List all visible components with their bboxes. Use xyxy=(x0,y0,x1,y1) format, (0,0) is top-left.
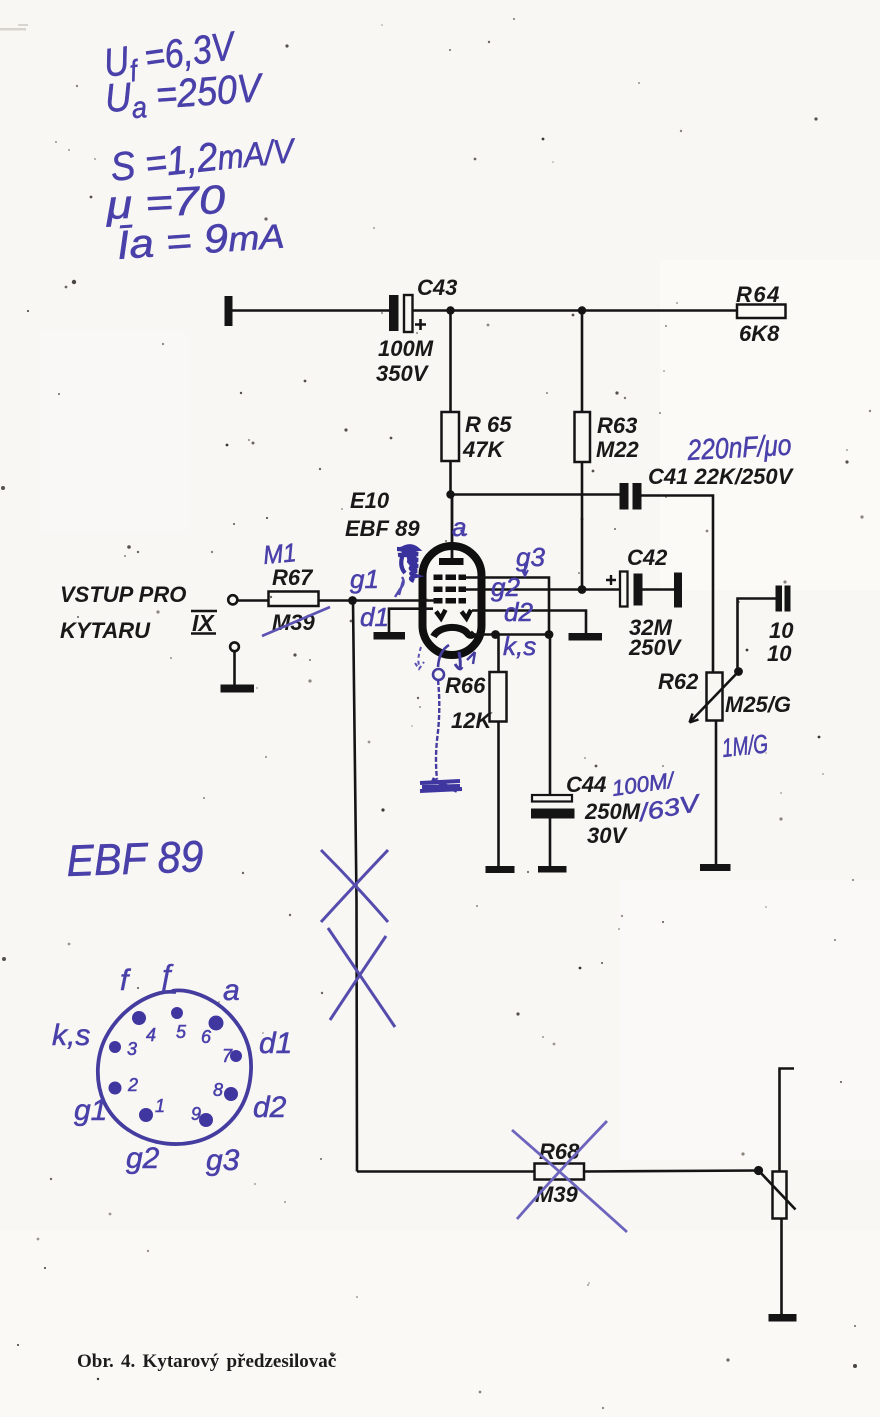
svg-text:R63: R63 xyxy=(597,413,637,438)
svg-text:1M/G: 1M/G xyxy=(720,728,769,763)
svg-text:6K8: 6K8 xyxy=(739,321,780,346)
svg-text:EBF 89: EBF 89 xyxy=(66,832,205,886)
tube grid g1 row xyxy=(434,598,467,604)
svg-text:2: 2 xyxy=(127,1075,138,1095)
tube anode plate xyxy=(439,558,464,565)
svg-text:d2: d2 xyxy=(504,597,533,627)
node junction anode/R65 xyxy=(446,490,454,498)
svg-text:M39: M39 xyxy=(535,1182,579,1207)
svg-text:g2: g2 xyxy=(126,1142,160,1175)
resistor R65 xyxy=(449,311,452,413)
wire d2 lead to ground xyxy=(472,611,586,634)
ground pot xyxy=(769,1314,797,1322)
resistor R67 xyxy=(269,592,319,607)
wire cathode lead xyxy=(470,633,549,636)
capacitor C44 xyxy=(549,635,552,796)
svg-text:220nF/μo: 220nF/μo xyxy=(686,430,792,467)
resistor R66 xyxy=(497,635,500,673)
tube E10 EBF89 envelope xyxy=(423,546,482,655)
node junction cathode / C44 xyxy=(545,630,554,639)
svg-text:250V: 250V xyxy=(628,635,683,660)
svg-text:C41 22K/250V: C41 22K/250V xyxy=(648,464,795,489)
input terminal circle xyxy=(228,595,237,604)
ground d1 xyxy=(374,632,406,640)
svg-text:8: 8 xyxy=(213,1080,223,1100)
svg-text:g3: g3 xyxy=(516,542,545,572)
node junction R68 / pot xyxy=(754,1166,763,1175)
svg-text:Obr. 4. Kytarový předzesilovač: Obr. 4. Kytarový předzesilovač xyxy=(77,1351,336,1372)
capacitor C43 (electrolytic) xyxy=(389,295,399,331)
svg-text:g3: g3 xyxy=(206,1144,240,1177)
svg-text:d2: d2 xyxy=(253,1091,287,1124)
svg-text:30V: 30V xyxy=(587,823,628,848)
svg-text:7: 7 xyxy=(222,1046,233,1066)
svg-text:M1: M1 xyxy=(262,537,297,570)
svg-text:R64: R64 xyxy=(736,282,781,307)
handwritten scribble blob left of tube xyxy=(397,546,418,581)
svg-text:d1: d1 xyxy=(360,602,389,632)
svg-text:250M: 250M xyxy=(584,799,641,824)
svg-text:k,s: k,s xyxy=(503,631,536,661)
svg-text:10: 10 xyxy=(769,618,794,643)
socket pin 9 xyxy=(199,1113,213,1127)
svg-text:5: 5 xyxy=(176,1022,187,1042)
ground input xyxy=(221,685,255,693)
wire top rail C43 to R64 xyxy=(413,309,738,312)
svg-text:M25/G: M25/G xyxy=(725,692,791,717)
socket pin 5 xyxy=(171,1007,183,1019)
svg-text:VSTUP PRO: VSTUP PRO xyxy=(60,582,186,607)
svg-text:47K: 47K xyxy=(462,437,505,462)
node junction cathode / R66 xyxy=(491,630,500,639)
wire long vertical from g1 node down xyxy=(353,601,357,1172)
resistor R68 xyxy=(535,1164,585,1180)
svg-text:C43: C43 xyxy=(417,275,457,300)
handwritten strike through M39 xyxy=(262,607,330,636)
svg-text:M22: M22 xyxy=(596,437,640,462)
svg-text:g1: g1 xyxy=(350,564,379,594)
B+ terminal bar top-left xyxy=(225,296,233,326)
wire d1 lead to ground xyxy=(389,609,433,632)
wire lower terminal to ground xyxy=(233,651,236,685)
potentiometer bottom right xyxy=(773,1172,787,1219)
svg-text:IX: IX xyxy=(192,610,215,636)
svg-text:KYTARU: KYTARU xyxy=(60,618,151,643)
svg-text:12K: 12K xyxy=(451,708,493,733)
wire C41 to R62 branch xyxy=(642,496,714,673)
wire g3 lead to cathode node xyxy=(464,578,549,635)
svg-text:350V: 350V xyxy=(376,361,430,386)
svg-text:E10: E10 xyxy=(350,488,390,513)
ground d2 xyxy=(569,633,603,641)
terminal bar after C42 xyxy=(674,573,682,608)
svg-text:ƒ: ƒ xyxy=(158,959,175,992)
handwritten X mark over R68 xyxy=(512,1121,627,1232)
tube grid g2 row xyxy=(434,587,467,593)
svg-text:6: 6 xyxy=(201,1027,212,1047)
node junction at C43 / R65 xyxy=(446,306,454,314)
svg-text:1: 1 xyxy=(155,1096,165,1116)
resistor R64 xyxy=(737,305,786,319)
svg-text:R62: R62 xyxy=(658,669,699,694)
potentiometer R62 xyxy=(734,667,743,676)
socket pin 1 xyxy=(139,1108,153,1122)
ground R66 xyxy=(486,866,515,873)
tube diode plate d2 xyxy=(462,610,472,619)
svg-text:9: 9 xyxy=(191,1104,201,1124)
svg-text:R 65: R 65 xyxy=(465,412,512,437)
wire anode down into tube xyxy=(451,495,454,561)
wire top rail left of C43 xyxy=(230,309,389,312)
tube socket circle xyxy=(98,990,251,1144)
handwritten X mark lower on vertical wire xyxy=(328,928,395,1027)
svg-text:d1: d1 xyxy=(259,1027,292,1060)
node junction g1 / R67 xyxy=(348,596,357,605)
socket pin 7 xyxy=(230,1050,242,1062)
svg-text:C44: C44 xyxy=(566,772,606,797)
svg-text:a: a xyxy=(223,974,240,1007)
svg-text:3: 3 xyxy=(127,1039,137,1059)
wire g1 lead to R67 node xyxy=(353,599,438,602)
tube diode plate d1 xyxy=(436,610,446,619)
ground R62 xyxy=(700,864,731,871)
wire input to R67 xyxy=(238,599,269,602)
wire pot top branch xyxy=(780,1069,795,1172)
svg-text:R66: R66 xyxy=(445,673,486,698)
wire bottom rail to R68 xyxy=(357,1170,535,1173)
socket pin 2 xyxy=(109,1082,122,1095)
svg-text:10: 10 xyxy=(767,641,792,666)
node junction R63 / C42 xyxy=(578,585,587,594)
svg-text:100M: 100M xyxy=(378,336,434,361)
svg-text:4: 4 xyxy=(146,1025,156,1045)
node junction at R63 top xyxy=(578,306,586,314)
wire g2 lead to C42 node xyxy=(464,588,620,591)
tube cathode xyxy=(434,627,475,636)
svg-text:C42: C42 xyxy=(627,545,668,570)
socket pin 8 xyxy=(224,1087,238,1101)
svg-text:EBF 89: EBF 89 xyxy=(345,516,420,541)
svg-text:g1: g1 xyxy=(74,1094,107,1127)
wire R62 wiper to right capacitor xyxy=(738,599,776,672)
handwritten scribble ground xyxy=(420,779,462,791)
handwritten hooks below tube xyxy=(415,647,424,669)
socket pin 6 xyxy=(209,1016,224,1031)
capacitor right edge xyxy=(776,586,783,612)
handwritten X mark upper on vertical wire xyxy=(321,850,388,922)
capacitor C41 xyxy=(620,483,629,510)
input lower terminal circle xyxy=(230,642,239,651)
ground C44 xyxy=(538,866,567,873)
wire anode rail to C41 xyxy=(451,493,620,496)
resistor R63 xyxy=(581,311,584,413)
svg-text:k,s: k,s xyxy=(52,1019,90,1052)
capacitor C42 (electrolytic) xyxy=(606,575,616,585)
tube grid g3 row xyxy=(434,575,467,581)
socket pin 3 xyxy=(109,1041,121,1053)
svg-text:a: a xyxy=(452,512,466,542)
socket pin 4 xyxy=(132,1011,146,1025)
handwritten blue wire to scribble ground xyxy=(436,680,439,779)
